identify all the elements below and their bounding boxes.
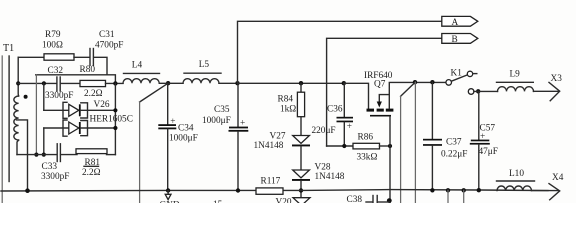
node rail stub2 xyxy=(462,188,466,192)
svg-text:1kΩ: 1kΩ xyxy=(280,105,296,115)
svg-text:B: B xyxy=(452,35,458,45)
wire diagonal down-left xyxy=(401,82,416,96)
node A tap xyxy=(235,81,239,85)
node rail C37 xyxy=(430,188,434,192)
svg-text:1N4148: 1N4148 xyxy=(315,172,345,182)
svg-text:Q7: Q7 xyxy=(374,80,386,90)
svg-text:2.2Ω: 2.2Ω xyxy=(84,89,103,99)
wire cathode vertical bus xyxy=(114,83,116,154)
svg-text:0.22μF: 0.22μF xyxy=(441,150,467,160)
node diagonal tap xyxy=(413,80,417,84)
svg-text:V28: V28 xyxy=(315,163,331,173)
resistor R80 xyxy=(80,65,106,99)
wire stub2 down xyxy=(463,190,465,203)
ground rail xyxy=(1,190,548,191)
svg-text:T1: T1 xyxy=(3,43,14,54)
svg-text:15: 15 xyxy=(213,200,223,203)
svg-text:33kΩ: 33kΩ xyxy=(357,153,378,163)
svg-text:C36: C36 xyxy=(327,105,343,115)
resistor R81 xyxy=(76,149,107,178)
wire R80 to output node xyxy=(106,82,124,84)
resistor R79 xyxy=(42,30,74,60)
wire C31 to corner down to node xyxy=(94,57,107,75)
resistor R117 xyxy=(256,177,283,195)
wire vertical x400.6 xyxy=(400,96,402,203)
svg-text:1000μF: 1000μF xyxy=(169,134,198,144)
wire secondary bottom lead xyxy=(17,140,19,155)
capacitor C37 xyxy=(423,82,467,190)
wire upper return run y=74.8 xyxy=(36,75,116,84)
wire L5 to A-node xyxy=(219,82,238,84)
svg-text:R117: R117 xyxy=(261,177,281,187)
wire diode2 cathode xyxy=(81,127,116,129)
inductor L10 xyxy=(497,169,535,191)
svg-text:C32: C32 xyxy=(48,66,64,76)
wire diode1 cathode xyxy=(81,109,116,111)
wire diode1 anode drop xyxy=(43,83,45,110)
resistor R84 xyxy=(278,83,305,135)
capacitor C31 xyxy=(90,30,123,66)
node rail C35 xyxy=(236,188,240,192)
diode V27 xyxy=(254,132,311,152)
capacitor C34 xyxy=(158,83,197,190)
wire diode2 anode xyxy=(44,127,69,129)
node C37 tap xyxy=(430,80,434,84)
node C36 tap xyxy=(342,81,346,85)
svg-text:V20: V20 xyxy=(276,198,292,204)
svg-text:C38: C38 xyxy=(347,195,363,203)
wire R79 top run xyxy=(18,56,44,58)
wire B riser and run xyxy=(327,38,442,146)
node diode2 anode bottom xyxy=(42,153,46,157)
node C38 junction xyxy=(387,198,392,203)
node R84 tap xyxy=(299,81,303,85)
svg-text:L10: L10 xyxy=(509,169,524,179)
svg-text:R79: R79 xyxy=(45,30,61,40)
capacitor C38 xyxy=(347,195,390,205)
capacitor C33 xyxy=(41,144,69,182)
wire A riser and top run xyxy=(238,21,442,83)
wire gray vertical from upper return to ground xyxy=(35,75,37,155)
wire A-node to R84 node xyxy=(238,82,344,84)
transformer T1 xyxy=(2,43,27,203)
node C36 bottom xyxy=(342,144,346,148)
svg-text:C35: C35 xyxy=(214,105,230,115)
wire vertical x415 xyxy=(414,82,416,203)
diode V20 xyxy=(276,198,311,208)
resistor R86 xyxy=(353,133,380,163)
diode V26 package xyxy=(63,100,133,136)
svg-text:C34: C34 xyxy=(178,124,194,134)
svg-text:47μF: 47μF xyxy=(479,147,498,157)
node bottom-snubber x35.7 xyxy=(34,153,38,157)
connector B xyxy=(442,34,478,45)
node cathode d2 xyxy=(113,126,117,130)
svg-text:A: A xyxy=(452,18,459,28)
capacitor C32 xyxy=(45,66,73,101)
svg-text:X3: X3 xyxy=(551,74,563,84)
svg-text:+: + xyxy=(347,122,352,132)
connector X3 xyxy=(549,74,562,101)
svg-text:GND: GND xyxy=(160,201,180,204)
wire V28 down xyxy=(300,181,302,203)
capacitor C36 xyxy=(312,83,354,146)
wire bottom snubber run y=154.4 xyxy=(17,154,57,156)
wire R86 to gate xyxy=(380,145,391,147)
inductor L9 xyxy=(497,70,534,92)
diode V28 xyxy=(292,163,345,183)
connector X4 xyxy=(549,173,564,200)
wire K1 out to L9 xyxy=(474,90,498,92)
wire L9 to X3 xyxy=(534,90,559,92)
svg-text:L4: L4 xyxy=(132,61,143,71)
svg-text:C31: C31 xyxy=(99,30,115,40)
svg-text:V26: V26 xyxy=(94,100,110,110)
inductor L4 xyxy=(123,61,160,84)
node gate xyxy=(388,144,392,148)
wire source lead xyxy=(389,82,446,108)
node rail stub1 xyxy=(446,188,450,192)
svg-text:HER1605C: HER1605C xyxy=(90,115,133,125)
wire diagonal from L4/L5 node xyxy=(140,83,169,102)
wire diode2 anode drop xyxy=(43,128,45,155)
node L4/L5 junction xyxy=(166,81,170,85)
relay K1 xyxy=(446,69,477,95)
wire diode1 anode xyxy=(44,109,69,111)
capacitor C57 xyxy=(470,91,498,190)
svg-text:X4: X4 xyxy=(552,173,564,183)
wire secondary top lead xyxy=(17,57,19,96)
wire C32 to R80 xyxy=(61,82,80,84)
svg-text:220μF: 220μF xyxy=(312,126,336,136)
svg-text:3300pF: 3300pF xyxy=(45,91,73,101)
wire L10 to X4 xyxy=(532,190,559,192)
svg-text:1N4148: 1N4148 xyxy=(254,141,284,151)
wire vertical x139.6 xyxy=(139,102,141,203)
node rail mid-tap xyxy=(25,188,30,193)
wire gate run y=146 xyxy=(327,145,353,147)
wire R81 to cathode bus xyxy=(107,154,116,156)
wire gate lead down xyxy=(389,117,391,204)
node rail C57 xyxy=(477,188,481,192)
capacitor C35 xyxy=(202,83,248,190)
svg-text:4700pF: 4700pF xyxy=(95,41,123,51)
svg-text:100Ω: 100Ω xyxy=(42,41,63,51)
svg-text:C37: C37 xyxy=(446,138,462,148)
svg-text:R86: R86 xyxy=(358,133,374,143)
node secondary-top junction xyxy=(16,81,20,85)
wire drain lead xyxy=(344,83,369,108)
svg-text:R80: R80 xyxy=(80,65,96,75)
svg-text:2.2Ω: 2.2Ω xyxy=(82,168,101,178)
wire V27 to V28 xyxy=(300,146,302,170)
svg-text:L5: L5 xyxy=(199,60,210,70)
wire main y=83.4 run xyxy=(18,82,56,84)
svg-text:R84: R84 xyxy=(278,95,294,105)
svg-text:3300pF: 3300pF xyxy=(41,172,69,182)
node K1 out xyxy=(476,89,480,93)
node rectifier output xyxy=(113,81,117,85)
wire L4 to L5 xyxy=(159,82,183,84)
wire C33 to R81 xyxy=(61,154,77,156)
ground symbol GND xyxy=(160,188,180,210)
inductor L5 xyxy=(183,60,221,83)
wire secondary mid tap xyxy=(17,120,28,191)
svg-text:C33: C33 xyxy=(42,162,58,172)
connector A xyxy=(442,16,478,27)
node cathode d1 xyxy=(113,108,117,112)
wire stub1 down xyxy=(447,190,449,203)
svg-text:V27: V27 xyxy=(270,132,286,142)
node C32 left xyxy=(42,81,46,85)
transistor Q7 xyxy=(364,71,393,117)
node V-chain ground xyxy=(299,188,303,192)
svg-text:1000μF: 1000μF xyxy=(202,116,231,126)
wire R79 to C31 xyxy=(74,56,90,58)
svg-text:L9: L9 xyxy=(510,70,521,80)
